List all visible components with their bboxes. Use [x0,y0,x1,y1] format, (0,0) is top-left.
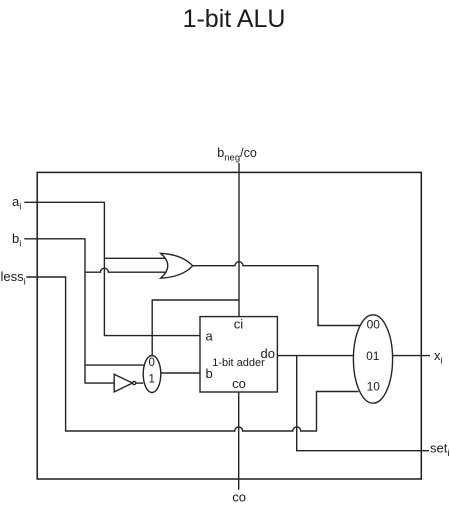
mux U3 (result select 00/01/10) [353,315,392,403]
wire b_neg branch to left mux select [152,300,239,357]
outer box [37,172,421,479]
or-gate (a or b) [161,253,193,278]
svg-text:lessi: lessi [1,269,26,288]
svg-text:xi: xi [434,348,443,367]
1-bit adder U2 [200,317,277,393]
svg-text:1-bit ALU: 1-bit ALU [183,5,286,33]
wire right mux output to x_i [393,355,430,357]
svg-text:10: 10 [367,380,381,394]
wire less_i: down, across bottom (hops over co and set verticals), up to mux 10 input [26,277,358,431]
svg-text:co: co [232,376,246,391]
svg-text:1: 1 [148,374,154,386]
wire adder do output to right mux 01 input [277,355,353,357]
svg-text:a: a [206,329,214,344]
wire do branch down to set_i output [297,356,429,451]
svg-text:00: 00 [367,318,381,332]
svg-text:ci: ci [234,317,244,332]
svg-text:0: 0 [148,357,154,369]
svg-text:1-bit adder: 1-bit adder [212,357,265,369]
svg-text:01: 01 [366,349,380,363]
mux U1 (b / not-b select) [143,356,161,393]
wire a_i input: right, down, into adder a [24,202,200,335]
svg-text:bi: bi [12,231,21,250]
inverter (b invert) [114,374,136,392]
wire b_i branch to mux 0 input [85,364,144,366]
wire adder co output to bottom [238,392,240,490]
svg-text:co: co [232,490,246,505]
wire b_i branch to OR gate bottom input (hop over a_i vertical) [85,268,166,272]
svg-text:bneg/co: bneg/co [217,146,257,164]
wire left mux output to adder b input [161,372,201,374]
wire OR gate output to right mux 00 input (hop over b_neg vertical) [193,262,361,326]
svg-text:ai: ai [12,194,21,213]
wire a_i branch to OR gate top input [104,257,165,259]
svg-text:seti: seti [430,441,449,460]
svg-text:b: b [206,366,213,381]
wire inverter output to mux 1 input [136,382,143,384]
wire b_neg/co vertical into adder ci [238,163,240,317]
wire b_i input: right, down to inverter input [24,239,114,383]
